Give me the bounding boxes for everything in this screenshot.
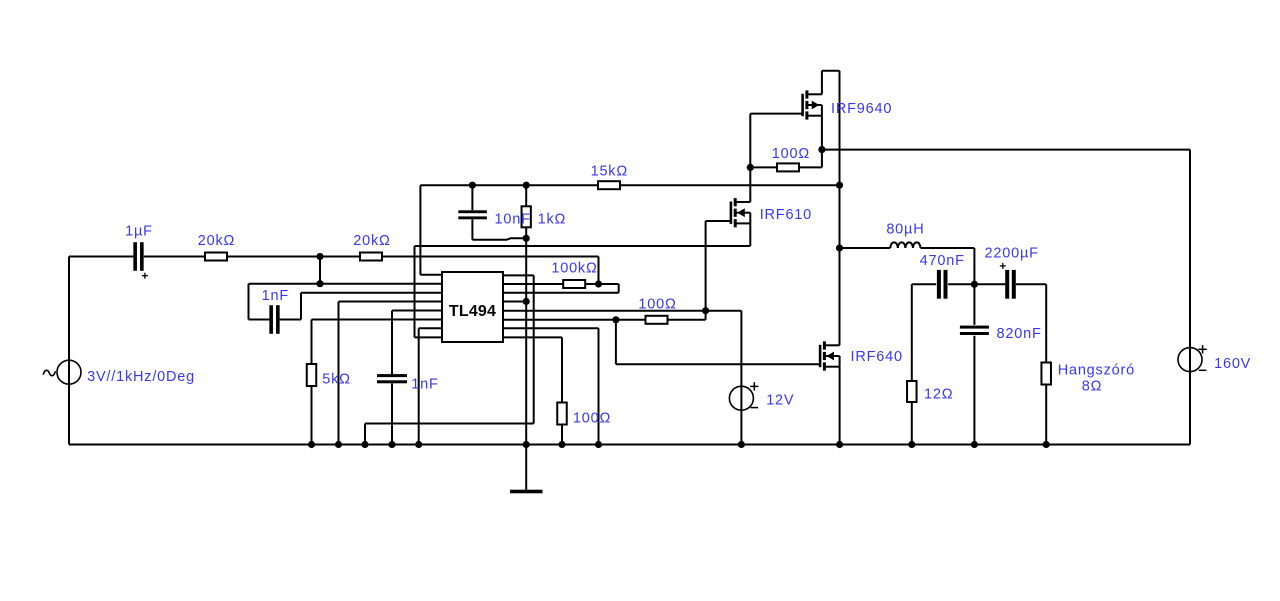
svg-text:Hangszóró: Hangszóró: [1058, 363, 1135, 379]
svg-text:20kΩ: 20kΩ: [198, 233, 235, 249]
svg-text:100Ω: 100Ω: [573, 410, 611, 426]
svg-text:IRF610: IRF610: [760, 207, 812, 223]
svg-text:100Ω: 100Ω: [638, 297, 676, 313]
svg-text:5kΩ: 5kΩ: [322, 372, 351, 388]
svg-text:80µH: 80µH: [886, 221, 924, 237]
svg-text:8Ω: 8Ω: [1082, 379, 1103, 395]
svg-text:3V//1kHz/0Deg: 3V//1kHz/0Deg: [87, 369, 195, 385]
svg-text:10nF: 10nF: [495, 211, 531, 227]
svg-text:IRF640: IRF640: [851, 349, 903, 365]
svg-text:12V: 12V: [766, 393, 794, 409]
svg-text:12Ω: 12Ω: [924, 387, 953, 403]
svg-text:1nF: 1nF: [262, 288, 289, 304]
svg-text:IRF9640: IRF9640: [831, 101, 892, 117]
svg-text:820nF: 820nF: [997, 326, 1042, 342]
svg-text:100Ω: 100Ω: [772, 146, 810, 162]
svg-text:15kΩ: 15kΩ: [591, 164, 628, 180]
svg-text:TL494: TL494: [449, 303, 496, 320]
svg-text:1kΩ: 1kΩ: [538, 211, 567, 227]
svg-text:1nF: 1nF: [411, 377, 438, 393]
svg-text:470nF: 470nF: [920, 253, 965, 269]
svg-text:20kΩ: 20kΩ: [353, 233, 390, 249]
svg-text:100kΩ: 100kΩ: [551, 260, 597, 276]
svg-text:1µF: 1µF: [125, 224, 153, 240]
svg-text:160V: 160V: [1214, 356, 1251, 372]
svg-text:2200µF: 2200µF: [985, 246, 1039, 262]
